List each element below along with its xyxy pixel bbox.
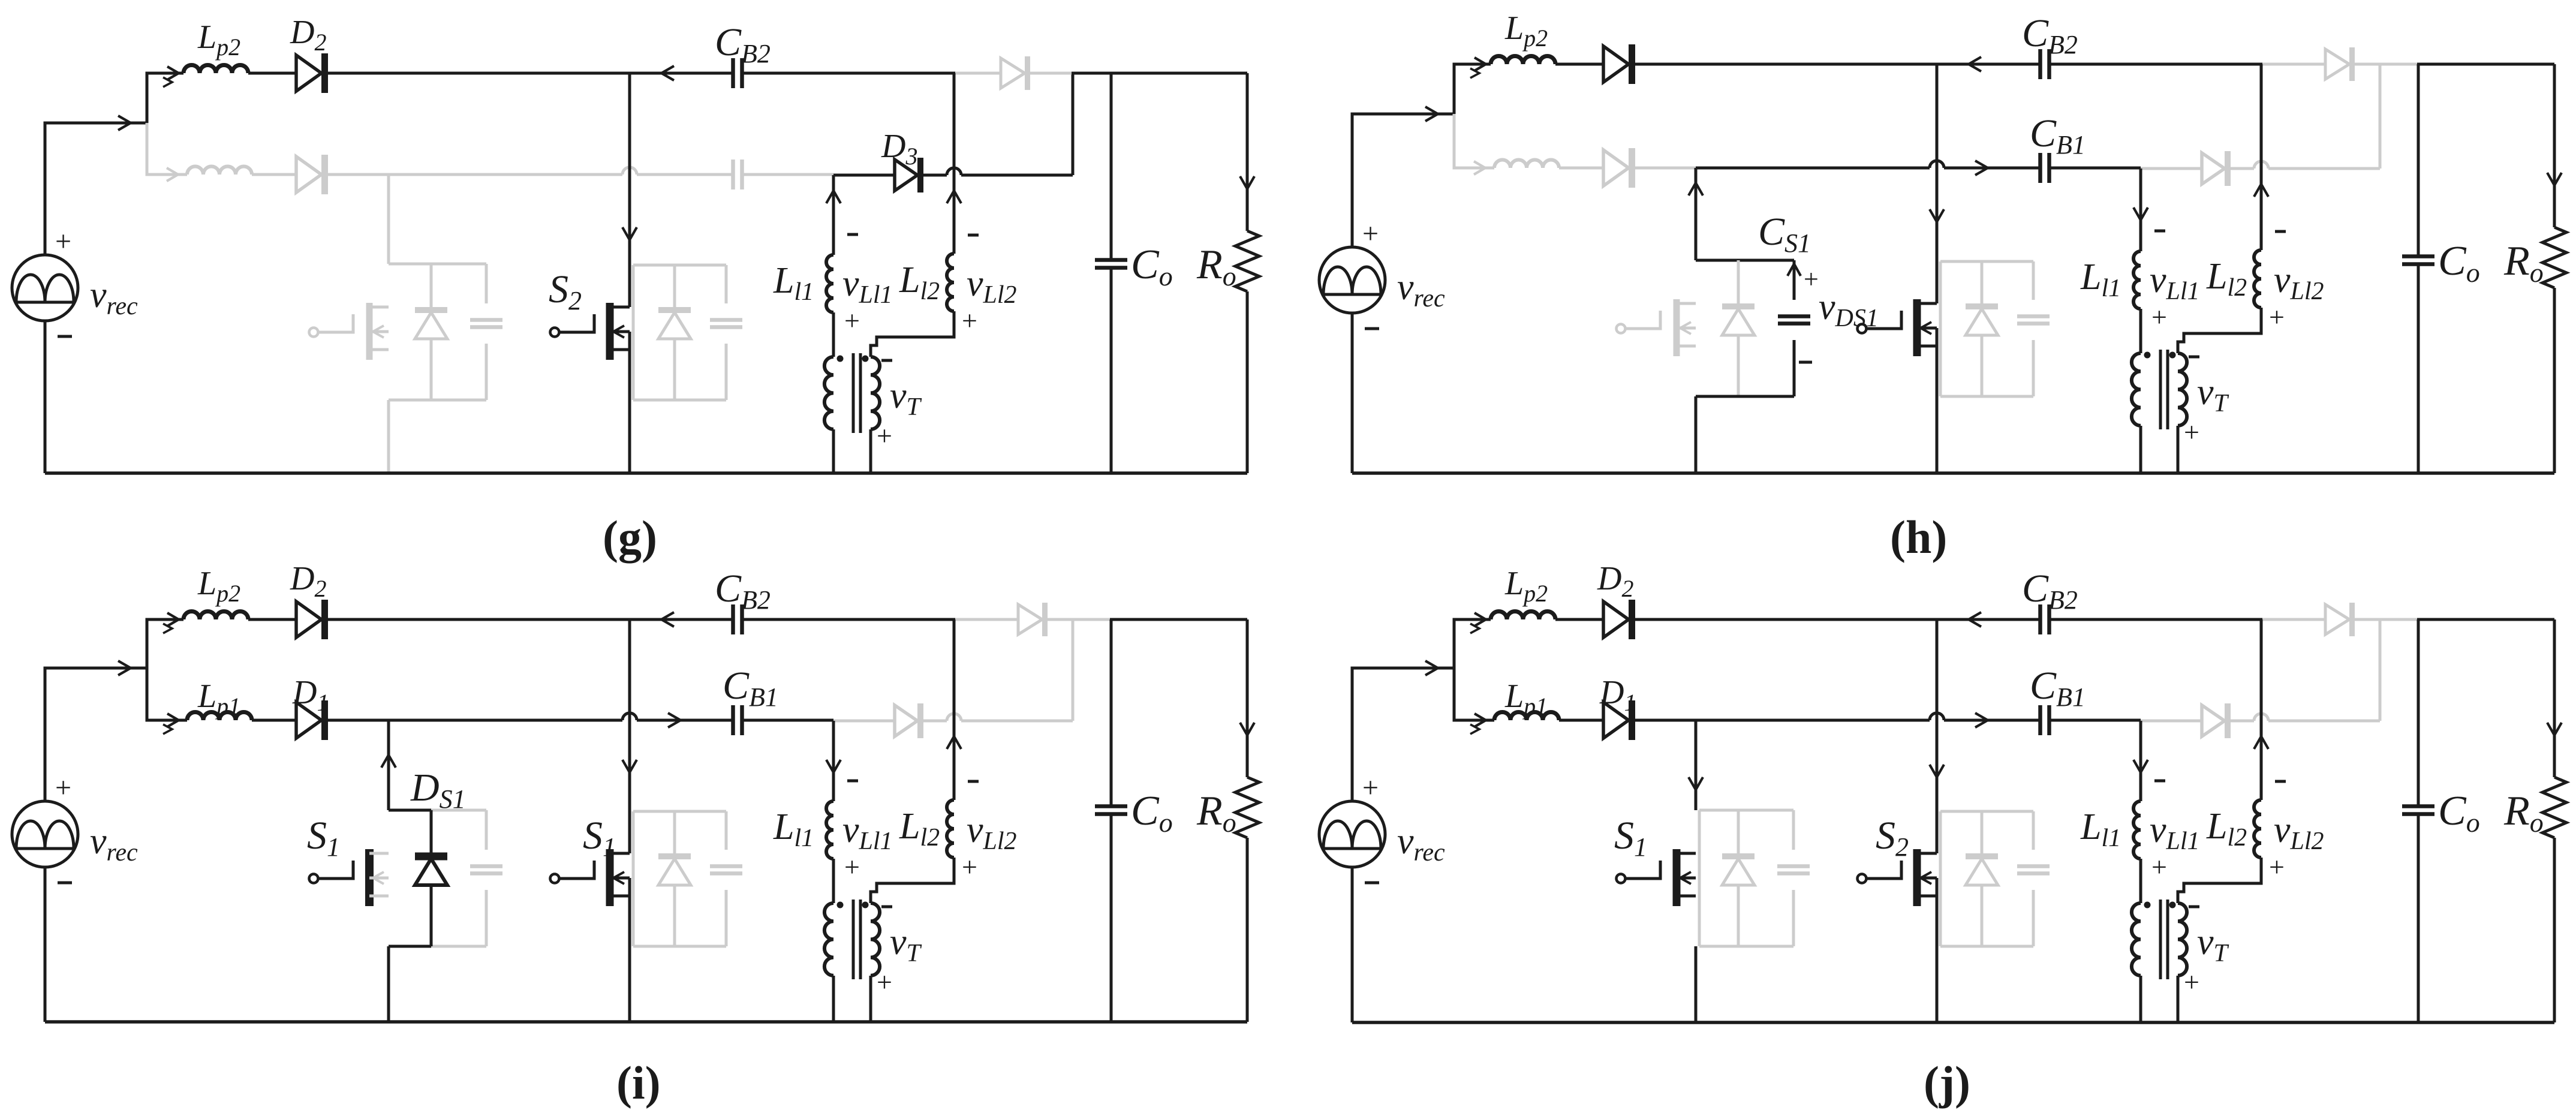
wire S1 box top (g): [389, 263, 486, 266]
inductor Lp2 (h): [1491, 56, 1555, 65]
label - CS1 (h): [1799, 361, 1812, 364]
svg-text:+: +: [2269, 852, 2285, 882]
label + vT (h): [2184, 417, 2199, 447]
label - vT (h): [2189, 356, 2199, 359]
label Co (g): [1131, 242, 1173, 291]
wire secondary to rail (j): [2177, 976, 2180, 1022]
hop over right leg (h): [2254, 161, 2268, 169]
capacitor of S2 box (g): [710, 265, 742, 400]
inductor Ll1 (g): [826, 255, 833, 312]
wire Lp1 to D1 (i): [252, 719, 296, 722]
wire corner down to branch2 (h): [1454, 114, 1494, 168]
arrow up right leg (g): [947, 191, 961, 203]
wire S2 drain from top rail (g): [628, 73, 631, 307]
label vT (g): [890, 375, 922, 421]
transformer core (g): [853, 353, 860, 433]
wire top rail D2 to CB2 (h): [1632, 63, 2040, 66]
svg-text:+: +: [1362, 772, 1379, 804]
diode D1 (i): [296, 700, 325, 740]
label + vLl2 (g): [962, 305, 977, 336]
wire S2 drain from top rail (i): [628, 619, 631, 853]
wire S2 source to rail (i): [628, 878, 631, 1022]
wire S1 box bottom gray part (i): [431, 945, 486, 948]
hop over S2 drain (i): [622, 713, 637, 720]
label CB1 (h): [2030, 112, 2086, 160]
wire left leg to D3 (i): [833, 720, 895, 723]
label S1 (j): [1614, 814, 1647, 862]
body diode of S2 (h): [1966, 261, 1998, 396]
wire top rail output section (j): [2417, 618, 2554, 621]
label Co (i): [1131, 788, 1173, 838]
label Ll1 (i): [773, 807, 814, 852]
diode D2 (i): [296, 600, 325, 639]
capacitor of S1 box (j): [1777, 810, 1810, 946]
capacitor of S1 box (g): [470, 264, 502, 400]
svg-text:+: +: [844, 305, 860, 336]
wire S2 box bottom (i): [633, 945, 726, 948]
label v_rec (h): [1397, 267, 1445, 312]
wire secondary step (i): [871, 858, 954, 903]
caption (i): [616, 1057, 661, 1109]
arrow up right leg (j): [2254, 736, 2268, 749]
label Lp1 (i): [197, 678, 240, 720]
label D3 (g): [881, 128, 917, 170]
source v_rec (i): [12, 801, 78, 867]
wire right leg upper (h): [2260, 64, 2263, 250]
label CS1 (h): [1758, 210, 1811, 258]
wire right rail upper (j): [2553, 619, 2556, 777]
wire Co branch (j): [2417, 619, 2420, 1022]
label CB2 (g): [715, 20, 771, 68]
wire primary to rail (i): [832, 976, 835, 1022]
label Ll2 (j): [2206, 806, 2247, 852]
arrow down load (g): [1240, 176, 1254, 189]
transformer dots (g): [837, 356, 869, 362]
wire CB1 to left leg (j): [2050, 719, 2141, 722]
arrow input current (i): [118, 661, 131, 675]
wire left leg upper (g): [832, 175, 835, 255]
label Lp2 (g): [197, 19, 240, 61]
wire S1 source to rail (g): [387, 400, 390, 473]
wire bottom rail (h): [1352, 471, 2554, 475]
label Co (j): [2438, 788, 2480, 838]
wire D3 to hop (g): [922, 174, 947, 177]
label vDS1 (h): [1819, 287, 1879, 332]
wire primary to rail (j): [2139, 976, 2142, 1022]
caption (j): [1924, 1057, 1970, 1109]
label CB1 (i): [723, 664, 778, 712]
transformer core (j): [2160, 900, 2168, 979]
wire secondary to rail (h): [2177, 426, 2180, 473]
label CB2 (j): [2022, 567, 2078, 615]
capacitor CB1 (i): [733, 705, 742, 735]
hop over S2 drain (h): [1930, 161, 1944, 168]
label CB1 (j): [2030, 664, 2086, 712]
label Co (h): [2438, 238, 2480, 288]
wire left leg to primary (g): [832, 312, 835, 357]
arrow branch1 current (g): [163, 67, 179, 87]
wire S2 drain from top rail (h): [1936, 64, 1939, 303]
wire right rail lower (h): [2553, 288, 2556, 473]
capacitor of S2 box (h): [2017, 261, 2050, 396]
arrow up right leg (h): [2254, 184, 2268, 197]
wire right rail lower (j): [2553, 838, 2556, 1022]
wire left leg upper (i): [832, 721, 835, 801]
wire hop to D3 out corner (g): [961, 174, 1073, 177]
label + at source (i): [55, 772, 71, 804]
arrow down load (h): [2547, 173, 2562, 185]
svg-text:+: +: [2184, 967, 2199, 997]
hop over S2 drain (j): [1930, 713, 1944, 720]
capacitor Co (g): [1095, 260, 1127, 268]
diode D4 (g): [1001, 56, 1028, 90]
inductor Ll2 (i): [947, 800, 954, 858]
wire bottom rail (j): [1352, 1021, 2554, 1024]
wire left leg upper (h): [2139, 169, 2142, 251]
wire S2 drain from top rail (j): [1936, 619, 1939, 853]
arrow up right leg (i): [947, 736, 961, 749]
label Ll1 (g): [773, 260, 814, 306]
capacitor Co (i): [1095, 807, 1127, 814]
label v_rec (i): [90, 821, 138, 867]
arrow down left leg (h): [2133, 207, 2148, 220]
svg-text:+: +: [1804, 264, 1819, 294]
label - vT (i): [881, 906, 892, 909]
wire corner up to branch1 (i): [147, 619, 183, 668]
label + at source (j): [1362, 772, 1379, 804]
wire Lp2 to D2 (j): [1555, 618, 1603, 621]
wire right rail upper (g): [1246, 73, 1249, 231]
arrow up left leg (g): [826, 191, 841, 203]
wire corner down to branch2 (g): [147, 123, 187, 175]
wire S2 box left (i): [632, 811, 635, 946]
resistor Ro (j): [2542, 777, 2566, 838]
wire right rail lower (g): [1246, 291, 1249, 473]
svg-text:+: +: [55, 225, 71, 257]
label + vT (j): [2184, 967, 2199, 997]
wire CB1 to left leg (g): [742, 173, 833, 176]
wire CS1 shelf bottom (h): [1696, 395, 1794, 398]
transformer core (h): [2160, 350, 2168, 429]
inductor Lp2 (g): [183, 65, 248, 74]
body diode of S2 (i): [658, 811, 691, 946]
resistor Ro (h): [2542, 227, 2566, 288]
inductor Ll1 (j): [2133, 801, 2141, 859]
wire S1 box bottom black part (i): [389, 945, 431, 948]
transformer secondary winding (g): [871, 357, 880, 429]
wire from source to input corner (j): [1352, 668, 1454, 801]
wire top rail output section (h): [2417, 63, 2554, 66]
wire S1 node to hop (g): [389, 173, 622, 176]
wire D3 to hop (j): [2229, 720, 2254, 723]
wire left leg to primary (h): [2139, 309, 2142, 353]
transformer secondary winding (j): [2178, 903, 2187, 976]
wire S2 box bottom (g): [633, 399, 726, 402]
wire left leg to primary (j): [2139, 859, 2142, 903]
label S2 (i): [583, 814, 616, 862]
arrow into CB2 (h): [1969, 57, 1981, 71]
label + at source (h): [1362, 218, 1379, 249]
svg-text:+: +: [2151, 302, 2167, 332]
label - vL11 (i): [847, 780, 858, 783]
diode D4 (i): [1018, 603, 1045, 636]
transformer primary winding (j): [2132, 903, 2141, 976]
label - at source (h): [1365, 327, 1379, 330]
inductor Lp1 (h): [1494, 160, 1559, 169]
source v_rec (j): [1319, 801, 1385, 867]
capacitor CB2 (g): [733, 58, 742, 88]
inductor Lp2 (i): [183, 612, 248, 620]
label D2 (g): [290, 14, 326, 56]
wire D3 to hop (i): [922, 720, 947, 723]
wire left leg upper (j): [2139, 721, 2142, 801]
wire S1 node to hop (i): [389, 719, 622, 722]
hop over right leg (g): [947, 168, 961, 175]
label - vLl2 (j): [2275, 780, 2286, 783]
svg-text:+: +: [962, 305, 977, 336]
inductor Lp1 (i): [187, 712, 252, 721]
label - vT (g): [881, 359, 892, 362]
arrow branch2 current (h): [1474, 161, 1485, 175]
arrow into CB2 (g): [661, 66, 674, 80]
wire primary to rail (h): [2139, 426, 2142, 473]
label + at source (g): [55, 225, 71, 257]
transformer dots (j): [2144, 902, 2176, 909]
wire S1 drain (j): [1695, 720, 1698, 810]
label Ll1 (j): [2080, 807, 2121, 852]
wire secondary to rail (i): [869, 976, 872, 1022]
label - vL11 (h): [2154, 230, 2165, 233]
wire S1 box bottom (g): [389, 399, 486, 402]
inductor Ll2 (h): [2254, 250, 2261, 308]
label - vL11 (j): [2154, 780, 2165, 783]
wire S2 source to rail (h): [1936, 328, 1939, 473]
diode D1 (j): [1603, 700, 1632, 740]
mosfet S1 (g): [309, 303, 389, 360]
svg-text:+: +: [1362, 218, 1379, 249]
svg-text:+: +: [55, 772, 71, 804]
wire top rail D2 to CB2 (j): [1632, 618, 2040, 621]
svg-text:(i): (i): [616, 1057, 661, 1109]
arrow down load (j): [2547, 723, 2562, 735]
diode D3 (g): [895, 158, 920, 192]
label - at source (g): [58, 335, 72, 338]
label D1 (i): [292, 674, 329, 716]
wire top rail gray segment left (h): [2262, 63, 2325, 66]
wire D3 out vertical (i): [1072, 619, 1075, 721]
label Ro (h): [2503, 238, 2544, 288]
source v_rec (h): [1319, 247, 1385, 313]
capacitor of S1 box (i): [470, 810, 502, 946]
wire S2 box top (g): [633, 264, 726, 267]
capacitor of S2 box (i): [710, 811, 742, 946]
label - at source (j): [1365, 882, 1379, 885]
arrow branch1 current (i): [163, 613, 179, 633]
wire Co branch (g): [1110, 73, 1113, 473]
wire S1 box top black part (i): [389, 809, 431, 812]
arrow up S1 drain (h): [1689, 183, 1703, 195]
diode D2 (g): [296, 53, 325, 93]
svg-text:+: +: [2269, 302, 2285, 332]
svg-text:(j): (j): [1924, 1057, 1970, 1109]
wire D3 to hop (h): [2229, 167, 2254, 170]
wire D1 to S1 drain node (i): [324, 719, 389, 722]
hop over right leg (i): [947, 714, 961, 721]
wire CB1 to left leg (h): [2050, 167, 2141, 170]
wire top rail D2 to CB2 (i): [324, 618, 733, 621]
wire Lp2 to D2 (h): [1555, 63, 1603, 66]
label vL11 (j): [2150, 810, 2200, 855]
label vLl2 (i): [967, 810, 1017, 855]
mosfet S1 (j): [1617, 849, 1696, 906]
wire top rail gray segment right (j): [2353, 618, 2417, 621]
wire Lp2 to D2 (g): [248, 72, 296, 75]
body diode DS1 branch (i): [415, 810, 447, 946]
label Lp2 (i): [197, 565, 240, 607]
label + vLl2 (h): [2269, 302, 2285, 332]
wire S1 box left edge (j): [1698, 810, 1701, 946]
label vL11 (g): [842, 263, 893, 309]
wire left leg to D3 (j): [2141, 720, 2202, 723]
wire CB2 to right leg (i): [742, 618, 955, 621]
inductor Lp1 (j): [1494, 712, 1559, 721]
label vLl2 (g): [967, 263, 1017, 309]
capacitor CB1 (j): [2041, 705, 2050, 735]
arrow down S2 drain (j): [1930, 765, 1944, 777]
wire S1 node to hop (h): [1696, 167, 1930, 170]
wire primary to rail (g): [832, 429, 835, 473]
wire S2 box top (j): [1940, 810, 2033, 813]
label S2 (j): [1876, 814, 1909, 862]
wire secondary step (g): [871, 311, 954, 357]
wire S1 drain upper (h): [1695, 168, 1698, 260]
label Ll1 (h): [2080, 257, 2121, 302]
label D2 (i): [290, 560, 326, 602]
label - vL11 (g): [847, 233, 858, 236]
wire top rail gray segment right (h): [2353, 63, 2417, 66]
wire secondary step (j): [2178, 858, 2261, 903]
inductor Ll2 (j): [2254, 800, 2261, 858]
label + vL11 (g): [844, 305, 860, 336]
hop over S2 drain (g): [622, 167, 637, 175]
mosfet S2 (h): [1858, 299, 1937, 356]
wire CB1 to left leg (i): [742, 719, 833, 722]
wire hop to CB1 (i): [637, 719, 733, 722]
arrow down load (i): [1240, 723, 1254, 735]
inductor Lp1 (g): [187, 167, 252, 175]
wire S1 box bottom (j): [1699, 945, 1793, 948]
wire left leg to primary (i): [832, 859, 835, 903]
label Lp2 (j): [1504, 565, 1548, 607]
wire S2 box top (h): [1940, 260, 2033, 263]
diode D2 (h): [1603, 44, 1632, 84]
wire S1 source to rail (h): [1695, 396, 1698, 473]
wire from source to input corner (g): [45, 123, 147, 255]
diode D4 (j): [2325, 603, 2352, 636]
label + vL11 (h): [2151, 302, 2167, 332]
wire Lp1 to D1 (h): [1559, 167, 1603, 170]
wire left leg to D3 (h): [2141, 167, 2202, 170]
label CB2 (i): [715, 567, 771, 615]
label Ll2 (g): [899, 260, 940, 305]
wire right leg upper (g): [953, 73, 956, 254]
svg-text:(g): (g): [603, 511, 657, 563]
transformer secondary winding (i): [871, 903, 880, 976]
arrow branch2 current (j): [1470, 714, 1486, 734]
wire hop to D3 out corner (i): [961, 720, 1073, 723]
arrow down left leg (j): [2133, 760, 2148, 772]
label + vLl2 (j): [2269, 852, 2285, 882]
wire top rail gray segment left (g): [955, 72, 1001, 75]
label + vL11 (i): [844, 852, 860, 882]
capacitor CB2 (h): [2041, 49, 2050, 79]
label vL11 (i): [842, 810, 893, 855]
wire hop to CB1 (h): [1944, 167, 2040, 170]
capacitor of S2 box (j): [2017, 811, 2050, 946]
body diode of S2 (g): [658, 265, 691, 400]
wire S1 drain (i): [387, 720, 390, 810]
hop over right leg (j): [2254, 714, 2268, 721]
wire S1 node to hop (j): [1696, 719, 1930, 722]
label CB2 (h): [2022, 11, 2078, 59]
wire D3 out vertical (j): [2379, 619, 2382, 721]
wire top rail D2 to CB2 (g): [324, 72, 733, 75]
arrow branch2 current (i): [163, 714, 179, 734]
label Ro (g): [1196, 242, 1236, 291]
wire S1 drain (g): [387, 175, 390, 264]
mosfet S1 (i): [309, 849, 389, 906]
wire S2 box bottom (j): [1940, 945, 2033, 948]
wire S2 box left (h): [1939, 261, 1942, 396]
wire from source to input corner (i): [45, 668, 147, 801]
wire right rail upper (h): [2553, 64, 2556, 227]
wire hop to CB1 (g): [637, 173, 733, 176]
wire source bottom to rail (i): [44, 867, 47, 1022]
body diode of S2 (j): [1966, 811, 1998, 946]
wire hop to D3 out corner (j): [2268, 720, 2380, 723]
transformer primary winding (i): [824, 903, 833, 976]
inductor Ll1 (i): [826, 801, 833, 859]
arrow down S2 drain (g): [622, 227, 637, 240]
transformer primary winding (h): [2132, 353, 2141, 426]
diode D3 (h): [2202, 151, 2228, 186]
caption (g): [603, 511, 657, 563]
arrow into CB2 (j): [1969, 612, 1981, 627]
wire D1 to S1 drain node (j): [1632, 719, 1696, 722]
label vT (j): [2197, 922, 2229, 967]
wire S1 box top gray part (i): [431, 809, 486, 812]
label DS1 (i): [410, 766, 466, 814]
resistor Ro (i): [1235, 777, 1259, 838]
label vLl2 (h): [2274, 260, 2324, 305]
inductor Ll1 (h): [2133, 251, 2141, 309]
wire CB2 to right leg (g): [742, 72, 955, 75]
label - vLl2 (g): [968, 234, 979, 237]
wire top rail gray segment left (j): [2262, 618, 2325, 621]
arrow branch1 current (j): [1470, 613, 1486, 633]
svg-text:+: +: [877, 420, 892, 451]
mosfet S2 (j): [1858, 849, 1937, 906]
wire hop to D3 out corner (h): [2268, 167, 2380, 170]
mosfet S1 (h): [1617, 299, 1696, 356]
label D2 (j): [1597, 560, 1633, 602]
capacitor CB2 (i): [733, 604, 742, 634]
arrow at CS1 top (h): [1787, 264, 1801, 276]
source v_rec (g): [12, 255, 78, 321]
label + vT (g): [877, 420, 892, 451]
svg-text:+: +: [962, 852, 977, 882]
label + vT (i): [877, 967, 892, 997]
